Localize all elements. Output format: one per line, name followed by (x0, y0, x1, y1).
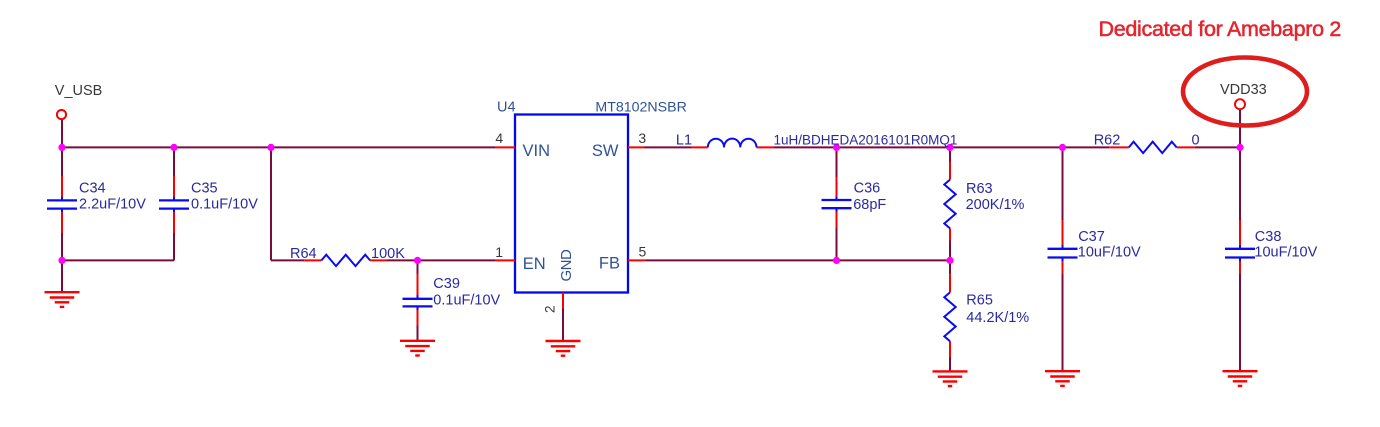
svg-text:C35: C35 (191, 181, 218, 197)
svg-text:L1: L1 (676, 132, 692, 148)
svg-text:2: 2 (543, 305, 558, 313)
svg-text:2.2uF/10V: 2.2uF/10V (79, 196, 146, 212)
svg-text:C34: C34 (79, 181, 106, 197)
svg-text:10uF/10V: 10uF/10V (1254, 245, 1317, 261)
svg-text:44.2K/1%: 44.2K/1% (966, 310, 1029, 326)
svg-text:C37: C37 (1078, 229, 1105, 245)
svg-text:EN: EN (523, 255, 546, 273)
svg-text:1uH/BDHEDA2016101R0MQ1: 1uH/BDHEDA2016101R0MQ1 (774, 133, 958, 148)
svg-text:R63: R63 (966, 181, 993, 197)
svg-text:C36: C36 (854, 181, 881, 197)
svg-text:200K/1%: 200K/1% (966, 197, 1025, 213)
svg-text:100K: 100K (371, 246, 405, 262)
svg-text:C38: C38 (1255, 229, 1282, 245)
svg-text:R65: R65 (966, 292, 993, 308)
svg-text:V_USB: V_USB (55, 83, 103, 99)
svg-text:5: 5 (639, 243, 647, 259)
svg-text:1: 1 (495, 244, 503, 260)
svg-text:0.1uF/10V: 0.1uF/10V (433, 293, 500, 309)
svg-text:SW: SW (592, 142, 619, 160)
svg-text:0: 0 (1192, 132, 1200, 148)
svg-text:10uF/10V: 10uF/10V (1078, 245, 1141, 261)
svg-text:Dedicated for Amebapro 2: Dedicated for Amebapro 2 (1099, 17, 1342, 41)
svg-text:3: 3 (638, 130, 646, 146)
svg-text:0.1uF/10V: 0.1uF/10V (191, 196, 258, 212)
svg-text:C39: C39 (433, 276, 460, 292)
svg-text:U4: U4 (497, 99, 516, 115)
svg-text:4: 4 (495, 130, 503, 146)
svg-text:MT8102NSBR: MT8102NSBR (595, 99, 686, 115)
svg-text:68pF: 68pF (853, 197, 886, 213)
svg-text:R64: R64 (290, 246, 317, 262)
svg-text:FB: FB (599, 255, 620, 273)
svg-text:GND: GND (558, 249, 575, 282)
svg-text:VIN: VIN (523, 142, 551, 160)
svg-text:VDD33: VDD33 (1220, 82, 1267, 98)
svg-text:R62: R62 (1094, 132, 1121, 148)
